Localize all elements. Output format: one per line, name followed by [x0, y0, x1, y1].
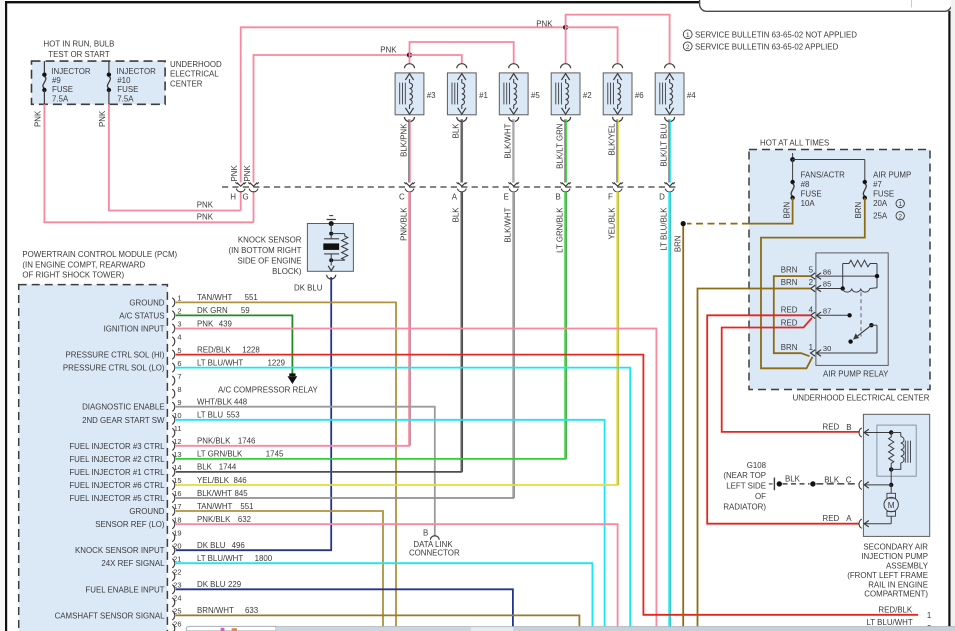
underhood electrical center box (right) — [749, 150, 930, 390]
PCM pin 10 — [172, 415, 175, 424]
injector #5 — [509, 64, 519, 69]
svg-text:#10: #10 — [117, 76, 131, 85]
PCM pin 12 — [172, 441, 175, 450]
wire BRN relay 86-30 link — [774, 276, 811, 356]
wire BLK/WHT injector to connector E — [512, 119, 514, 182]
secondary air injection pump assembly box — [863, 414, 929, 536]
wire BRN/WHT pin 25 camshaft signal — [176, 615, 580, 626]
svg-text:BLK: BLK — [824, 475, 840, 484]
svg-text:#8: #8 — [801, 180, 810, 189]
svg-text:229: 229 — [228, 580, 242, 589]
svg-text:551: 551 — [245, 293, 258, 302]
svg-text:G108: G108 — [747, 461, 767, 470]
injector #1 — [457, 64, 467, 69]
svg-text:#3: #3 — [427, 91, 436, 100]
wire LT GRN/BLK pin 13 — [176, 458, 566, 460]
wire DK BLU pin 23 fuel enable — [176, 589, 513, 626]
svg-text:D: D — [659, 192, 665, 201]
PCM pin 21 — [172, 559, 175, 568]
svg-text:5: 5 — [177, 346, 181, 355]
wire LT BLU/WHT pin 6 — [176, 368, 630, 627]
svg-text:FUEL ENABLE INPUT: FUEL ENABLE INPUT — [85, 585, 164, 594]
PCM pin 7 — [172, 376, 175, 385]
svg-text:YEL/BLK: YEL/BLK — [607, 207, 616, 240]
svg-text:BLK: BLK — [785, 474, 801, 483]
svg-text:BLK: BLK — [452, 207, 461, 223]
svg-text:AIR PUMP: AIR PUMP — [873, 171, 911, 180]
wire LT BLU/BLK connector D down to bottom — [668, 191, 670, 626]
svg-text:4: 4 — [177, 333, 181, 342]
wire BLK/YEL injector to connector F — [616, 119, 618, 182]
wire PNK junction to injector 2 — [565, 27, 567, 64]
svg-text:BLK: BLK — [197, 463, 213, 472]
svg-text:RED: RED — [823, 423, 840, 432]
pump motor — [890, 485, 892, 493]
wire PNK fuse 9 to connector G — [44, 104, 253, 222]
svg-text:9: 9 — [177, 398, 181, 407]
popup icon orange — [232, 628, 237, 631]
PCM pin 15 — [172, 480, 175, 489]
svg-text:INJECTOR: INJECTOR — [117, 67, 157, 76]
svg-text:LEFT SIDE: LEFT SIDE — [726, 482, 766, 491]
svg-text:LT GRN/BLK: LT GRN/BLK — [555, 207, 564, 253]
wire LT GRN/BLK connector to PCM pin 13 — [564, 191, 566, 459]
connector F — [614, 183, 622, 187]
data link connector B — [430, 536, 439, 540]
svg-text:2: 2 — [686, 44, 690, 51]
connector A — [458, 183, 466, 187]
wire RED relay 87 to pump B — [722, 318, 859, 432]
wire RED/BLK pin 5 to connector 1 — [176, 355, 918, 615]
svg-text:ELECTRICAL: ELECTRICAL — [170, 70, 219, 79]
PCM pin 26 — [172, 624, 175, 631]
svg-text:#1: #1 — [479, 91, 488, 100]
svg-text:HOT IN RUN, BULB: HOT IN RUN, BULB — [44, 40, 115, 49]
svg-text:SERVICE BULLETIN 63-65-02 APPL: SERVICE BULLETIN 63-65-02 APPLIED — [695, 43, 839, 52]
fuse INJECTOR #10 7.5A — [108, 61, 110, 75]
svg-text:C: C — [399, 192, 405, 201]
note 2 service bulletin — [683, 42, 692, 51]
svg-text:1: 1 — [927, 611, 931, 620]
svg-text:14: 14 — [173, 463, 181, 472]
svg-text:BRN: BRN — [781, 343, 798, 352]
svg-text:1: 1 — [177, 294, 181, 303]
wire BLK/LT BLU injector to connector D — [668, 119, 670, 182]
wire PNK/BLK connector to PCM pin 12 — [408, 191, 410, 445]
svg-text:1228: 1228 — [242, 345, 260, 354]
svg-text:1746: 1746 — [238, 437, 256, 446]
svg-text:1229: 1229 — [268, 358, 286, 367]
wire YEL/BLK connector to PCM pin 15 — [616, 191, 618, 485]
svg-text:BLK/PNK: BLK/PNK — [399, 123, 408, 157]
svg-text:1745: 1745 — [266, 450, 284, 459]
injector #3 — [405, 64, 415, 69]
connector H — [237, 183, 245, 187]
svg-text:20A: 20A — [873, 199, 888, 208]
fuse FANS/ACTR #8 10A — [790, 180, 794, 184]
svg-text:PNK: PNK — [197, 212, 214, 221]
svg-text:8: 8 — [177, 385, 181, 394]
bulkhead connector dashed line — [222, 186, 676, 188]
svg-text:PRESSURE CTRL SOL (HI): PRESSURE CTRL SOL (HI) — [66, 351, 165, 360]
svg-text:PNK/BLK: PNK/BLK — [197, 515, 231, 524]
svg-text:1: 1 — [809, 343, 813, 352]
relay switch — [847, 313, 851, 317]
wire PNK junction to injector 3 — [409, 55, 411, 64]
svg-text:30: 30 — [823, 344, 831, 353]
svg-text:17: 17 — [173, 502, 181, 511]
PCM pin 9 — [172, 402, 175, 411]
svg-text:PNK/BLK: PNK/BLK — [399, 207, 408, 241]
svg-text:BRN: BRN — [781, 266, 798, 275]
PCM pin 11 — [172, 428, 175, 437]
svg-text:845: 845 — [235, 489, 249, 498]
svg-text:20: 20 — [173, 541, 181, 550]
svg-text:(NEAR TOP: (NEAR TOP — [723, 471, 766, 480]
svg-text:INJECTION PUMP: INJECTION PUMP — [861, 552, 928, 561]
popup window top right — [700, 0, 952, 11]
svg-text:DK GRN: DK GRN — [197, 306, 228, 315]
svg-text:2: 2 — [177, 307, 181, 316]
svg-text:7: 7 — [177, 372, 181, 381]
wire PNK junction to injector 5 — [410, 42, 514, 64]
svg-text:59: 59 — [241, 306, 250, 315]
svg-text:PNK: PNK — [243, 165, 252, 182]
svg-text:#2: #2 — [583, 91, 592, 100]
svg-text:PNK: PNK — [98, 110, 107, 127]
svg-text:PNK: PNK — [34, 110, 43, 127]
svg-text:LT BLU/WHT: LT BLU/WHT — [197, 554, 243, 563]
svg-text:10A: 10A — [801, 199, 816, 208]
svg-text:PNK: PNK — [230, 165, 239, 182]
PCM pin 17 — [172, 506, 175, 515]
pump pin B line — [865, 432, 892, 434]
air pump relay box — [816, 253, 888, 366]
svg-text:DIAGNOSTIC ENABLE: DIAGNOSTIC ENABLE — [82, 403, 164, 412]
svg-text:SIDE OF ENGINE: SIDE OF ENGINE — [237, 257, 301, 266]
svg-text:(IN BOTTOM RIGHT: (IN BOTTOM RIGHT — [228, 246, 301, 255]
svg-text:FUEL INJECTOR #2 CTRL: FUEL INJECTOR #2 CTRL — [69, 455, 165, 464]
connector E — [510, 183, 518, 187]
wire PNK junction to injector 4 — [566, 15, 670, 65]
feed line to fuses — [792, 153, 794, 160]
svg-text:1800: 1800 — [255, 554, 273, 563]
wire YEL/BLK pin 15 — [176, 484, 618, 486]
svg-text:15: 15 — [173, 476, 181, 485]
svg-text:SECONDARY AIR: SECONDARY AIR — [863, 543, 928, 552]
wire BLK connector to PCM pin 14 — [460, 191, 462, 472]
svg-text:OF: OF — [755, 492, 766, 501]
svg-text:633: 633 — [245, 606, 259, 615]
relay pin arrows y=276.1 — [811, 273, 816, 279]
relay pin 85 line — [817, 288, 843, 290]
svg-text:24X REF SIGNAL: 24X REF SIGNAL — [101, 559, 165, 568]
svg-text:DK BLU: DK BLU — [197, 541, 226, 550]
PCM dashed box — [19, 285, 168, 631]
svg-text:1744: 1744 — [219, 463, 237, 472]
svg-text:18: 18 — [173, 515, 181, 524]
svg-text:13: 13 — [173, 450, 181, 459]
svg-text:PRESSURE CTRL SOL (LO): PRESSURE CTRL SOL (LO) — [63, 364, 165, 373]
svg-text:BLK/YEL: BLK/YEL — [607, 123, 616, 156]
node PNK junction (injector 2 feed) — [563, 25, 568, 30]
PCM pin 20 — [172, 546, 175, 555]
svg-text:A/C STATUS: A/C STATUS — [119, 311, 164, 320]
svg-text:BLK/LT BLU: BLK/LT BLU — [659, 123, 668, 166]
svg-text:B: B — [556, 192, 561, 201]
wire DK BLU knock sensor to PCM pin 20 — [176, 277, 331, 550]
PCM pin 22 — [172, 572, 175, 581]
svg-text:TAN/WHT: TAN/WHT — [197, 293, 233, 302]
svg-text:23: 23 — [173, 581, 181, 590]
svg-text:FUEL INJECTOR #5 CTRL: FUEL INJECTOR #5 CTRL — [69, 494, 165, 503]
svg-text:RADIATOR): RADIATOR) — [723, 502, 766, 511]
PCM pin 18 — [172, 520, 175, 529]
svg-text:E: E — [504, 192, 509, 201]
svg-text:10: 10 — [173, 411, 181, 420]
svg-text:PNK: PNK — [380, 46, 397, 55]
svg-text:BLK/WHT: BLK/WHT — [504, 207, 513, 242]
svg-text:22: 22 — [173, 567, 181, 576]
svg-text:RED/BLK: RED/BLK — [197, 345, 232, 354]
svg-text:POWERTRAIN CONTROL MODULE (PCM: POWERTRAIN CONTROL MODULE (PCM) — [22, 250, 177, 259]
svg-text:19: 19 — [173, 528, 181, 537]
wire BLK/WHT connector to PCM pin 16 — [512, 191, 514, 498]
bottom overlay white popup — [186, 626, 276, 631]
svg-text:LT BLU/WHT: LT BLU/WHT — [197, 358, 243, 367]
svg-text:KNOCK SENSOR: KNOCK SENSOR — [238, 236, 302, 245]
svg-text:12: 12 — [173, 437, 181, 446]
svg-text:85: 85 — [823, 280, 831, 289]
svg-text:PNK: PNK — [197, 201, 214, 210]
wire BRN fuse 7 to relay pin 30 — [761, 198, 865, 368]
svg-text:A: A — [452, 192, 458, 201]
svg-text:RAIL IN ENGINE: RAIL IN ENGINE — [868, 580, 928, 589]
knock sensor internals — [330, 224, 332, 232]
svg-text:BRN/WHT: BRN/WHT — [197, 606, 234, 615]
pump pin C arrows — [859, 480, 862, 489]
svg-text:CAMSHAFT SENSOR SIGNAL: CAMSHAFT SENSOR SIGNAL — [55, 611, 166, 620]
svg-text:#9: #9 — [52, 76, 61, 85]
svg-text:4: 4 — [809, 305, 814, 314]
wire PNK/BLK pin 18 sensor ref — [176, 524, 618, 626]
svg-text:LT BLU: LT BLU — [197, 411, 223, 420]
svg-text:FUEL INJECTOR #1 CTRL: FUEL INJECTOR #1 CTRL — [69, 468, 165, 477]
PCM pin 4 — [172, 337, 175, 346]
svg-text:TAN/WHT: TAN/WHT — [197, 502, 233, 511]
wire BRN junction down to bottom — [682, 226, 684, 627]
svg-text:BRN: BRN — [782, 202, 791, 219]
PCM pin 8 — [172, 389, 175, 398]
wire PNK pin 3 ignition input — [176, 329, 657, 627]
svg-text:F: F — [608, 192, 613, 201]
svg-text:TEST OR START: TEST OR START — [48, 50, 110, 59]
svg-text:SERVICE BULLETIN 63-65-02 NOT: SERVICE BULLETIN 63-65-02 NOT APPLIED — [695, 31, 857, 40]
wire BLK/WHT pin 16 — [176, 497, 514, 499]
node BRN junction — [681, 221, 686, 226]
PCM pin 23 — [172, 585, 175, 594]
svg-text:M: M — [888, 501, 895, 510]
wire BRN fuse 8 out left (partly dashed) — [749, 198, 793, 224]
svg-text:FANS/ACTR: FANS/ACTR — [801, 171, 846, 180]
wire TAN/WHT pin 1 (ground) — [176, 302, 396, 626]
svg-text:AIR PUMP RELAY: AIR PUMP RELAY — [823, 370, 889, 379]
svg-text:3: 3 — [177, 320, 181, 329]
connector G — [250, 183, 258, 187]
bottom bar — [276, 627, 955, 631]
wire BLK/LT GRN injector to connector B — [564, 119, 566, 182]
PCM pin 25 — [172, 611, 175, 620]
svg-text:FUSE: FUSE — [52, 85, 73, 94]
svg-text:INJECTOR: INJECTOR — [51, 67, 91, 76]
svg-text:BLK/LT GRN: BLK/LT GRN — [555, 123, 564, 169]
knock sensor box — [307, 224, 353, 272]
ground symbol above knock sensor — [329, 215, 333, 217]
svg-text:LT BLU/WHT: LT BLU/WHT — [867, 618, 913, 627]
pump winding — [889, 430, 893, 434]
wire BRN relay 85 to PCM side — [698, 289, 811, 627]
svg-text:#6: #6 — [635, 91, 644, 100]
PCM pin 2 — [172, 311, 175, 320]
pump pin B arrows — [859, 428, 862, 437]
svg-text:26: 26 — [173, 620, 181, 629]
svg-text:HOT AT ALL TIMES: HOT AT ALL TIMES — [760, 139, 829, 148]
svg-text:(IN ENGINE COMPT, REARWARD: (IN ENGINE COMPT, REARWARD — [22, 261, 145, 270]
relay pin arrows y=353.0 — [811, 350, 816, 356]
svg-text:RED/BLK: RED/BLK — [878, 605, 913, 614]
PCM pin 13 — [172, 454, 175, 463]
svg-text:#4: #4 — [687, 91, 696, 100]
svg-text:SENSOR REF (LO): SENSOR REF (LO) — [95, 520, 165, 529]
svg-text:632: 632 — [238, 515, 251, 524]
svg-text:PNK: PNK — [197, 319, 214, 328]
svg-text:PNK: PNK — [536, 20, 553, 29]
pump solenoid inner box — [877, 425, 916, 476]
svg-text:BLOCK): BLOCK) — [272, 267, 302, 276]
svg-text:OF RIGHT SHOCK TOWER): OF RIGHT SHOCK TOWER) — [22, 271, 124, 280]
PCM pin 14 — [172, 467, 175, 476]
svg-text:UNDERHOOD ELECTRICAL CENTER: UNDERHOOD ELECTRICAL CENTER — [793, 394, 930, 403]
svg-text:553: 553 — [227, 411, 241, 420]
svg-text:COMPARTMENT): COMPARTMENT) — [864, 590, 928, 599]
svg-text:5: 5 — [809, 266, 814, 275]
svg-text:G: G — [243, 192, 249, 201]
svg-text:87: 87 — [823, 307, 831, 316]
svg-text:FUSE: FUSE — [801, 190, 822, 199]
svg-text:GROUND: GROUND — [129, 507, 164, 516]
svg-text:BRN: BRN — [781, 278, 798, 287]
svg-text:846: 846 — [234, 476, 248, 485]
svg-text:1: 1 — [898, 201, 902, 208]
relay pin arrows y=288.5 — [811, 285, 816, 291]
svg-text:25A: 25A — [873, 211, 888, 220]
wire LT BLU pin 10 — [176, 420, 605, 627]
wire BLK pin 14 — [176, 471, 462, 473]
svg-text:BLK: BLK — [452, 123, 461, 139]
wire PNK/BLK pin 12 — [176, 445, 410, 447]
svg-text:BRN: BRN — [673, 235, 682, 252]
svg-text:6: 6 — [177, 359, 181, 368]
svg-text:2: 2 — [809, 278, 813, 287]
connector B — [562, 183, 570, 187]
wire RED relay 87 to pump A — [707, 315, 859, 523]
injector #6 — [613, 64, 623, 69]
svg-text:FUSE: FUSE — [873, 190, 894, 199]
svg-text:BLK/WHT: BLK/WHT — [504, 123, 513, 158]
svg-text:24: 24 — [173, 594, 181, 603]
svg-text:LT BLU/BLK: LT BLU/BLK — [659, 207, 668, 251]
relay actuator dashed line — [860, 292, 862, 336]
injector #4 — [665, 64, 675, 69]
svg-text:11: 11 — [174, 424, 182, 433]
svg-text:7.5A: 7.5A — [117, 94, 134, 103]
svg-text:551: 551 — [240, 502, 253, 511]
svg-text:16: 16 — [173, 489, 181, 498]
node PNK junction (injector 3 feed) — [407, 52, 412, 57]
svg-text:FUEL INJECTOR #6 CTRL: FUEL INJECTOR #6 CTRL — [69, 481, 165, 490]
underhood electrical center box (left) — [32, 61, 166, 104]
svg-text:WHT/BLK: WHT/BLK — [197, 398, 233, 407]
svg-text:25: 25 — [173, 607, 181, 616]
wire BLK injector to connector A — [460, 119, 462, 182]
svg-text:GROUND: GROUND — [129, 298, 164, 307]
relay coil resistor — [843, 260, 877, 267]
svg-text:DK BLU: DK BLU — [197, 580, 226, 589]
injector #2 — [561, 64, 571, 69]
svg-text:FUSE: FUSE — [117, 85, 138, 94]
svg-text:B: B — [846, 423, 851, 432]
PCM pin 24 — [172, 598, 175, 607]
relay pin 87 line — [817, 314, 850, 316]
fuse INJECTOR #9 7.5A — [43, 61, 45, 75]
svg-text:(FRONT LEFT FRAME: (FRONT LEFT FRAME — [847, 571, 928, 580]
wire PNK junction to injector 1 — [410, 55, 462, 64]
PCM pin 3 — [172, 324, 175, 333]
svg-text:RED: RED — [823, 514, 840, 523]
fuse AIR PUMP #7 20A/25A — [863, 180, 867, 184]
svg-text:RED: RED — [781, 318, 798, 327]
svg-text:7.5A: 7.5A — [52, 94, 69, 103]
svg-text:CENTER: CENTER — [170, 79, 203, 88]
svg-text:496: 496 — [232, 541, 246, 550]
PCM pin 16 — [172, 493, 175, 502]
wire WHT/BLK pin 9 to data link connector — [176, 407, 435, 537]
svg-text:ASSEMBLY: ASSEMBLY — [886, 562, 929, 571]
wire PNK connector G up-feed — [253, 191, 255, 222]
svg-text:21: 21 — [173, 554, 181, 563]
relay coil — [843, 289, 870, 293]
pump pin A line — [865, 523, 892, 525]
svg-text:DK BLU: DK BLU — [294, 284, 323, 293]
PCM pin 6 — [172, 363, 175, 372]
PCM pin 1 — [172, 298, 175, 307]
connector D — [666, 183, 674, 187]
svg-text:FUEL INJECTOR #3 CTRL: FUEL INJECTOR #3 CTRL — [69, 442, 165, 451]
svg-text:439: 439 — [219, 319, 233, 328]
svg-text:RED: RED — [781, 305, 798, 314]
svg-text:#7: #7 — [873, 180, 882, 189]
wire PNK fuse 10 to connector H — [109, 104, 241, 210]
wire DK GRN pin 2 to A/C compressor relay — [176, 315, 293, 374]
svg-text:C: C — [846, 475, 852, 484]
svg-text:86: 86 — [823, 267, 831, 276]
wire BLK G108 to pump C (dashed) — [783, 483, 810, 485]
wire TAN/WHT pin 17 (ground) — [176, 511, 383, 627]
svg-text:PNK/BLK: PNK/BLK — [197, 437, 231, 446]
svg-text:B: B — [423, 528, 428, 537]
svg-text:UNDERHOOD: UNDERHOOD — [170, 60, 222, 69]
svg-text:448: 448 — [234, 398, 248, 407]
